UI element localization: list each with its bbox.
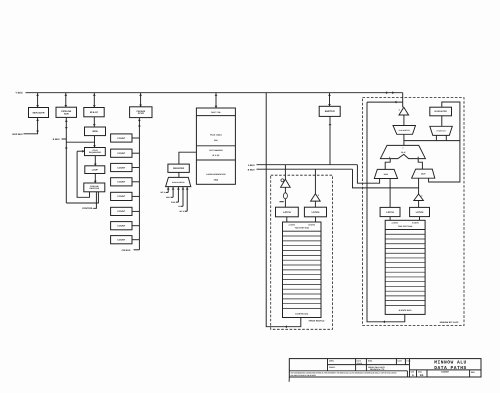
wire latches to right RAM xyxy=(390,217,419,221)
svg-text:PAGE TABLE: PAGE TABLE xyxy=(210,134,223,137)
register COUNT8 xyxy=(111,236,140,244)
svg-text:LARGE WORKSPACE: LARGE WORKSPACE xyxy=(206,173,226,176)
register COUNT2 xyxy=(111,149,140,157)
wire Y BUS to SHIFTER xyxy=(328,93,331,107)
svg-text:COUNT: COUNT xyxy=(117,195,125,198)
svg-text:B SETS: B SETS xyxy=(412,222,419,225)
memory middle TWO PORT RAM register file xyxy=(283,222,322,318)
title block small fields xyxy=(329,359,410,371)
latch LATCH A middle xyxy=(276,207,299,217)
wire memory stack to REGISTER xyxy=(179,152,197,164)
title block size row xyxy=(411,370,476,377)
svg-text:MINNOW ALU: MINNOW ALU xyxy=(434,360,467,366)
wire middle regfile writeback xyxy=(266,93,301,328)
svg-text:ALU SHIFTER: ALU SHIFTER xyxy=(399,129,411,132)
svg-text:REGISTER: REGISTER xyxy=(173,167,185,170)
wire Y BUS to CM BUS XCVR xyxy=(139,93,142,107)
wire arrow into CS-IR SEQUENCER xyxy=(77,150,84,153)
svg-text:F: F xyxy=(403,147,404,150)
node B BUS label mid xyxy=(248,168,255,171)
register COUNT6 xyxy=(111,207,140,215)
svg-text:B WRITE DATA: B WRITE DATA xyxy=(399,309,413,312)
wire CONTROL tap xyxy=(93,192,96,209)
svg-text:TWO PORT RAM: TWO PORT RAM xyxy=(295,227,310,230)
node Y BUS label xyxy=(15,92,23,95)
svg-text:MDR: MDR xyxy=(421,173,426,176)
svg-text:A: A xyxy=(412,374,414,377)
wire MDR to driver xyxy=(418,178,420,194)
latch LATCH B right xyxy=(410,207,430,216)
svg-text:A SETS: A SETS xyxy=(289,223,296,226)
svg-text:LATCH: LATCH xyxy=(386,211,394,214)
block SHIFTER xyxy=(319,106,340,116)
buffer slice B driver triangle xyxy=(414,194,424,207)
wire ALU A input elbow xyxy=(385,159,390,170)
svg-text:RESEARCH CTR: RESEARCH CTR xyxy=(370,368,385,371)
svg-text:SHIFTER: SHIFTER xyxy=(325,110,335,113)
wire IR B-CC to IROB xyxy=(93,117,96,127)
svg-text:LOOP: LOOP xyxy=(92,168,99,171)
buffer B driver triangle xyxy=(311,169,321,207)
title block frame tail xyxy=(288,377,290,382)
wire Y BUS arrows into slice xyxy=(385,91,394,94)
latch LATCH B middle xyxy=(304,207,326,217)
title block note text xyxy=(291,371,398,377)
wire A BUS wrap to MAR xyxy=(357,165,379,184)
node B BUS label xyxy=(53,138,60,141)
svg-text:SPARE REGFILE: SPARE REGFILE xyxy=(309,320,326,323)
wire REGISTER to RAM ADDRESS mux xyxy=(178,172,180,177)
wire Y BUS to IR B-CC xyxy=(93,93,96,108)
alu ALU xyxy=(380,145,425,158)
gate enable oval xyxy=(280,187,288,207)
svg-text:FAST MEMORY: FAST MEMORY xyxy=(209,149,224,152)
svg-text:(2K): (2K) xyxy=(214,139,218,142)
wire right regfile writeback vertical xyxy=(367,102,405,323)
wire B BUS label tap xyxy=(62,138,67,140)
register COUNT4 xyxy=(111,178,140,186)
svg-text:(8 X 16): (8 X 16) xyxy=(213,154,220,157)
wire horizontal B bus to sequencer column xyxy=(66,141,94,143)
svg-text:MAR: MAR xyxy=(384,173,389,176)
wire B SHIFTER outputs xyxy=(404,135,460,140)
wire ALU B input elbow xyxy=(418,159,422,170)
svg-text:COUNT: COUNT xyxy=(117,152,125,155)
svg-text:REV.: REV. xyxy=(471,371,476,374)
mux RAM ADDRESS xyxy=(166,177,191,186)
wire B BUS wrap to MDR node xyxy=(353,169,419,188)
wire ALU SHIFTER to ALU node xyxy=(403,134,405,145)
svg-text:B SETS: B SETS xyxy=(309,223,316,226)
wire inner feedback loop xyxy=(77,151,89,197)
register IROB xyxy=(85,127,106,136)
svg-text:ENG.: ENG. xyxy=(368,360,373,363)
svg-text:ADR: ADR xyxy=(64,112,69,115)
svg-text:SHIFT TBL: SHIFT TBL xyxy=(211,111,222,114)
svg-text:COUNT: COUNT xyxy=(117,238,125,241)
wire latches to middle RAM xyxy=(287,217,316,222)
svg-text:VMA: VMA xyxy=(166,196,171,199)
svg-text:DWN.: DWN. xyxy=(329,360,335,363)
block CS-IR SEQUENCER xyxy=(85,148,106,156)
svg-text:COUNT: COUNT xyxy=(117,224,125,227)
mux MDR xyxy=(412,169,435,178)
register PIPELINE REGISTER xyxy=(84,183,105,192)
wire B BUS horizontal xyxy=(257,168,353,170)
svg-text:XCVR: XCVR xyxy=(138,112,144,115)
memory right TWO PORT RAM register file xyxy=(385,220,425,314)
register COUNT7 xyxy=(111,222,140,230)
title block frame xyxy=(289,359,481,377)
node CONTROL label xyxy=(82,207,93,210)
register LOOP xyxy=(85,166,105,174)
wire MDR BUS to MDR ADDR xyxy=(24,118,40,134)
svg-text:MINNOW BIT SLICE: MINNOW BIT SLICE xyxy=(440,321,459,324)
svg-text:LATCH: LATCH xyxy=(312,211,320,214)
node MINNOW BIT SLICE label xyxy=(440,321,459,324)
svg-text:PGM: PGM xyxy=(171,201,176,204)
wire PIPELINE ADR down xyxy=(65,117,68,203)
svg-text:NUMBER: NUMBER xyxy=(441,371,450,374)
svg-text:TWO PORT RAM: TWO PORT RAM xyxy=(398,225,413,228)
buffer A driver triangle xyxy=(281,165,291,188)
svg-text:B BUS: B BUS xyxy=(53,138,60,141)
buffer Y bus driver triangle xyxy=(399,107,409,125)
node CM BUS label xyxy=(122,249,140,252)
wire CM bus vertical xyxy=(138,118,141,250)
svg-text:2/20/76: 2/20/76 xyxy=(357,362,363,365)
wire RAM ADDRESS input VMA 2 xyxy=(166,187,175,200)
svg-text:CHK'D.: CHK'D. xyxy=(329,366,336,369)
node middle regfile label xyxy=(309,320,326,323)
svg-text:COUNT: COUNT xyxy=(117,166,125,169)
register MDR ADDR xyxy=(29,108,49,118)
svg-text:IROB: IROB xyxy=(92,130,98,133)
mux B SHIFTER xyxy=(430,116,453,136)
svg-text:COUNT: COUNT xyxy=(117,181,125,184)
register COUNT1 xyxy=(111,134,140,142)
wire Y BUS corner down xyxy=(402,93,404,108)
wire Y BUS horizontal xyxy=(26,92,403,94)
svg-text:CM BUS: CM BUS xyxy=(122,249,131,252)
node A BUS label xyxy=(248,164,255,167)
wire RAM ADDRESS input B 4 xyxy=(178,187,184,209)
svg-text:B WRITE DATA: B WRITE DATA xyxy=(295,312,309,315)
svg-text:ES: ES xyxy=(420,374,424,377)
node MDR BUS label xyxy=(12,133,23,136)
svg-text:Y BUS: Y BUS xyxy=(15,92,23,95)
wire Y BUS to PIPELINE ADR xyxy=(64,93,67,108)
svg-text:LATCH: LATCH xyxy=(416,211,424,214)
wire MAR to latch xyxy=(389,179,391,208)
mux MAR xyxy=(374,169,397,178)
register IR B-CC xyxy=(84,108,104,117)
latch LATCH A right xyxy=(380,207,400,216)
wire LOOP to PIPELINE REGISTER xyxy=(94,174,97,184)
register B REGISTER xyxy=(430,107,452,116)
wire RAM ADDRESS input MC 4 5 xyxy=(179,187,188,213)
svg-text:SEQUENCER: SEQUENCER xyxy=(89,151,102,154)
svg-text:CONTROL: CONTROL xyxy=(82,207,93,210)
block middle bit-slice dashed boundary xyxy=(271,175,333,329)
svg-text:IR B-CC: IR B-CC xyxy=(90,111,99,114)
wire SHIFTER to A bus xyxy=(329,116,332,164)
wire MDR feedback to B REGISTER xyxy=(429,102,460,182)
wire RAM ADDRESS input MC 4 1 xyxy=(160,187,169,195)
wire CS-IR SEQUENCER to LOOP xyxy=(94,156,97,166)
title text MINNOW ALU DATA PATHS xyxy=(434,360,467,371)
svg-text:COUNT: COUNT xyxy=(117,210,125,213)
svg-text:B REGISTER: B REGISTER xyxy=(435,110,448,113)
block MINNOW bit slice dashed boundary xyxy=(363,98,465,326)
svg-text:RAM ADDRESS: RAM ADDRESS xyxy=(172,181,185,184)
svg-text:A BUS: A BUS xyxy=(248,164,255,167)
wire outer feedback loop xyxy=(66,192,98,203)
block memory stack xyxy=(196,108,235,184)
register CM BUS XCVR xyxy=(130,107,152,118)
svg-text:LATCH: LATCH xyxy=(283,211,291,214)
svg-text:REGISTER: REGISTER xyxy=(89,187,99,190)
register COUNT5 xyxy=(111,192,140,200)
register COUNT3 xyxy=(111,163,140,171)
svg-text:B SHIFTER: B SHIFTER xyxy=(437,130,447,133)
svg-text:ALU: ALU xyxy=(401,151,406,154)
register PIPELINE ADR xyxy=(56,107,77,117)
wire RAM ADDRESS input PGM 3 xyxy=(171,187,180,204)
svg-text:DATA PATHS: DATA PATHS xyxy=(434,365,467,371)
svg-text:(384): (384) xyxy=(214,179,219,182)
wire writeback junction horizontal xyxy=(367,101,403,104)
wire Y BUS to MDR ADDR xyxy=(36,93,39,108)
svg-text:MDR ADHR: MDR ADHR xyxy=(33,111,45,114)
mux ALU SHIFTER xyxy=(393,126,416,135)
wire Y BUS to memory stack xyxy=(215,93,218,108)
svg-text:COUNT: COUNT xyxy=(117,137,125,140)
svg-text:A SETS: A SETS xyxy=(392,222,399,225)
register REGISTER xyxy=(168,164,189,172)
wire A BUS horizontal xyxy=(257,164,358,166)
wire IROB to CS-IR SEQUENCER xyxy=(93,136,96,148)
svg-text:B BUS: B BUS xyxy=(248,168,255,171)
svg-text:MDR BUS: MDR BUS xyxy=(12,133,23,136)
